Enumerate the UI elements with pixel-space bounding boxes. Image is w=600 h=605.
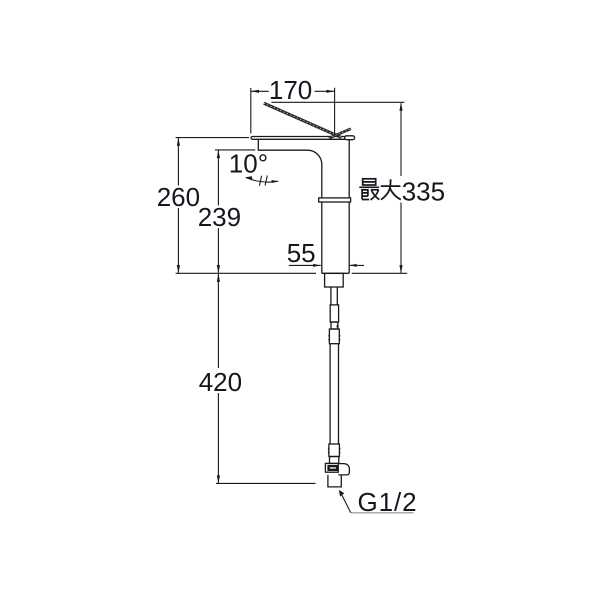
valve inner bar bbox=[329, 466, 338, 470]
kanji DAI (big) bbox=[381, 179, 401, 199]
lower collar bbox=[330, 457, 339, 464]
dim max335 top extension bbox=[272, 101, 405, 103]
arrow max335 down bbox=[399, 265, 402, 273]
dim 170 line bbox=[251, 90, 335, 92]
dim 55 line right bbox=[349, 264, 364, 266]
dim 260 top extension bbox=[176, 137, 249, 139]
dim 55 line left bbox=[289, 264, 321, 266]
arrow 260 up bbox=[177, 138, 180, 146]
dim max335 line bbox=[400, 103, 402, 273]
svg-text:170: 170 bbox=[269, 75, 312, 105]
svg-text:260: 260 bbox=[157, 182, 200, 212]
arrow max335 up bbox=[399, 103, 402, 111]
trim ring on column bbox=[319, 198, 351, 202]
arrow 239 down bbox=[217, 265, 220, 273]
hose fitting upper bbox=[330, 305, 338, 322]
outlet piece bbox=[338, 464, 349, 475]
arrow 170 left bbox=[251, 90, 259, 93]
arrow 420 down bbox=[217, 475, 220, 483]
svg-text:335: 335 bbox=[402, 176, 445, 206]
corrugated nut lower bbox=[329, 444, 340, 457]
deck reference line bbox=[176, 272, 408, 274]
dim 420 bottom extension bbox=[216, 482, 316, 484]
lever stub beyond pivot bbox=[329, 129, 351, 138]
svg-text:55: 55 bbox=[287, 238, 316, 268]
flexible hose bbox=[330, 344, 338, 444]
dim 239 line bbox=[217, 150, 219, 273]
faucet spout body outline bbox=[258, 140, 349, 274]
threaded shaft bbox=[331, 287, 337, 305]
svg-text:10°: 10° bbox=[229, 149, 268, 179]
hose fitting collar bbox=[331, 322, 338, 329]
dim 170 extension lines bbox=[251, 88, 335, 136]
arrow 420 up bbox=[217, 274, 220, 282]
arrow 55 left bbox=[349, 264, 357, 267]
valve body bbox=[325, 463, 338, 472]
dim 239 top extension bbox=[215, 149, 255, 151]
arrow leader G1/2 bbox=[339, 490, 345, 497]
arrow 239 up bbox=[217, 150, 220, 158]
angle swing arc bbox=[246, 176, 278, 186]
leader line G1/2 bbox=[340, 492, 351, 513]
kanji SAI (max) bbox=[359, 179, 379, 200]
dim 260 line bbox=[177, 138, 179, 273]
base plate pill bbox=[251, 137, 353, 140]
svg-text:G1/2: G1/2 bbox=[358, 487, 418, 517]
arc arrow left bbox=[245, 176, 253, 179]
lever handle raised bbox=[264, 103, 351, 138]
connection stub G1/2 bbox=[328, 475, 341, 487]
svg-text:239: 239 bbox=[198, 202, 241, 232]
corrugated nut upper bbox=[329, 329, 339, 344]
svg-text:420: 420 bbox=[199, 367, 242, 397]
arrow 170 right bbox=[326, 90, 334, 93]
arrow 260 down bbox=[177, 265, 180, 273]
base block under deck bbox=[325, 273, 344, 287]
G1/2 underline bbox=[351, 512, 414, 514]
arrow 55 right bbox=[313, 264, 321, 267]
arc arrow right bbox=[271, 180, 278, 183]
dim 420 line bbox=[217, 274, 219, 484]
collar notch bbox=[337, 325, 339, 327]
plate right cap bbox=[345, 136, 355, 140]
